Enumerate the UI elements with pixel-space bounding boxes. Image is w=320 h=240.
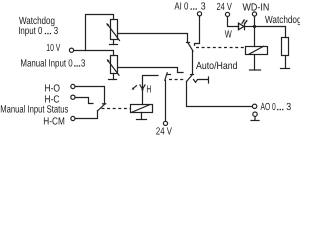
svg-text:3: 3 [54, 26, 59, 37]
svg-text:H: H [146, 85, 151, 96]
svg-text:Manual Input 0: Manual Input 0 [20, 59, 72, 70]
svg-text:Manual Input Status: Manual Input Status [0, 104, 68, 115]
svg-text:10 V: 10 V [46, 43, 60, 54]
svg-text:Watchdog: Watchdog [265, 15, 300, 26]
svg-text:H-O: H-O [45, 84, 61, 95]
svg-text:3: 3 [286, 102, 291, 113]
svg-text:WD-IN: WD-IN [243, 2, 270, 13]
svg-text:24 V: 24 V [156, 127, 172, 135]
svg-text:24 V: 24 V [217, 2, 232, 13]
svg-text:AI 0: AI 0 [174, 2, 188, 13]
svg-text:3: 3 [201, 2, 206, 13]
svg-text:W: W [225, 30, 232, 41]
svg-text:3: 3 [81, 59, 86, 70]
svg-text:Input 0: Input 0 [18, 26, 42, 37]
svg-text:Auto/Hand: Auto/Hand [196, 61, 238, 72]
svg-text:H-CM: H-CM [43, 117, 65, 128]
svg-text:AO 0: AO 0 [261, 102, 276, 113]
